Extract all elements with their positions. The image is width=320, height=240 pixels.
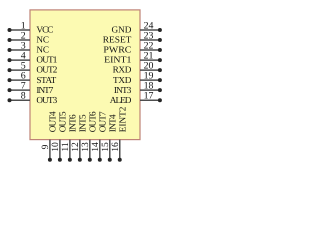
svg-text:OUT4: OUT4: [48, 111, 58, 132]
pin 20 (RXD) right: [113, 61, 162, 75]
pin 1 (VCC) left: [8, 20, 54, 34]
svg-text:16: 16: [110, 142, 121, 152]
pin 19 (TXD) right: [113, 71, 162, 85]
IC body U1: [30, 10, 140, 140]
svg-text:VCC: VCC: [36, 25, 53, 35]
pin 24 (GND) right: [111, 20, 161, 34]
pin 4 (OUT1) left: [8, 50, 58, 64]
pin 7 (INT7) left: [8, 81, 54, 95]
svg-text:RXD: RXD: [113, 65, 132, 75]
pin 3 (NC) left: [8, 40, 50, 54]
pin 21 (EINT1) right: [104, 50, 162, 64]
pin 22 (PWRC) right: [103, 40, 162, 54]
pin 2 (NC) left: [8, 30, 50, 44]
svg-text:OUT7: OUT7: [98, 111, 108, 132]
pin 8 (OUT3) left: [8, 91, 58, 105]
svg-text:OUT1: OUT1: [36, 55, 57, 65]
svg-text:INT5: INT5: [78, 114, 88, 132]
pin 14 (OUT7) bottom: [90, 111, 108, 162]
pin 5 (OUT2) left: [8, 61, 58, 75]
svg-text:TXD: TXD: [113, 75, 132, 85]
pin 15 (INT4) bottom: [100, 114, 118, 162]
svg-text:INT6: INT6: [68, 114, 78, 132]
pin 23 (RESET) right: [103, 30, 162, 44]
pin 16 (EINT2) bottom: [110, 106, 128, 162]
pin 13 (OUT6) bottom: [80, 111, 98, 162]
pin 6 (STAT) left: [8, 71, 57, 85]
svg-text:EINT1: EINT1: [104, 55, 132, 65]
svg-text:EINT2: EINT2: [118, 106, 128, 132]
pin 9 (OUT4) bottom: [40, 111, 58, 162]
svg-text:INT7: INT7: [36, 85, 53, 95]
svg-text:8: 8: [21, 91, 26, 102]
svg-text:NC: NC: [36, 35, 49, 45]
svg-text:INT3: INT3: [114, 85, 132, 95]
svg-text:17: 17: [144, 91, 154, 102]
pin 10 (OUT5) bottom: [50, 111, 68, 162]
svg-text:OUT3: OUT3: [36, 95, 57, 105]
svg-text:INT4: INT4: [108, 114, 118, 132]
svg-text:OUT2: OUT2: [36, 65, 57, 75]
svg-text:PWRC: PWRC: [103, 45, 131, 55]
pin 17 (ALED) right: [110, 91, 162, 105]
pin 12 (INT5) bottom: [70, 114, 88, 162]
svg-text:OUT5: OUT5: [58, 111, 68, 132]
svg-text:ALED: ALED: [110, 95, 132, 105]
svg-text:GND: GND: [111, 25, 131, 35]
svg-text:RESET: RESET: [103, 35, 132, 45]
svg-text:NC: NC: [36, 45, 49, 55]
pin 18 (INT3) right: [114, 81, 162, 95]
svg-text:STAT: STAT: [36, 75, 56, 85]
pin 11 (INT6) bottom: [60, 114, 78, 162]
svg-text:OUT6: OUT6: [88, 111, 98, 132]
